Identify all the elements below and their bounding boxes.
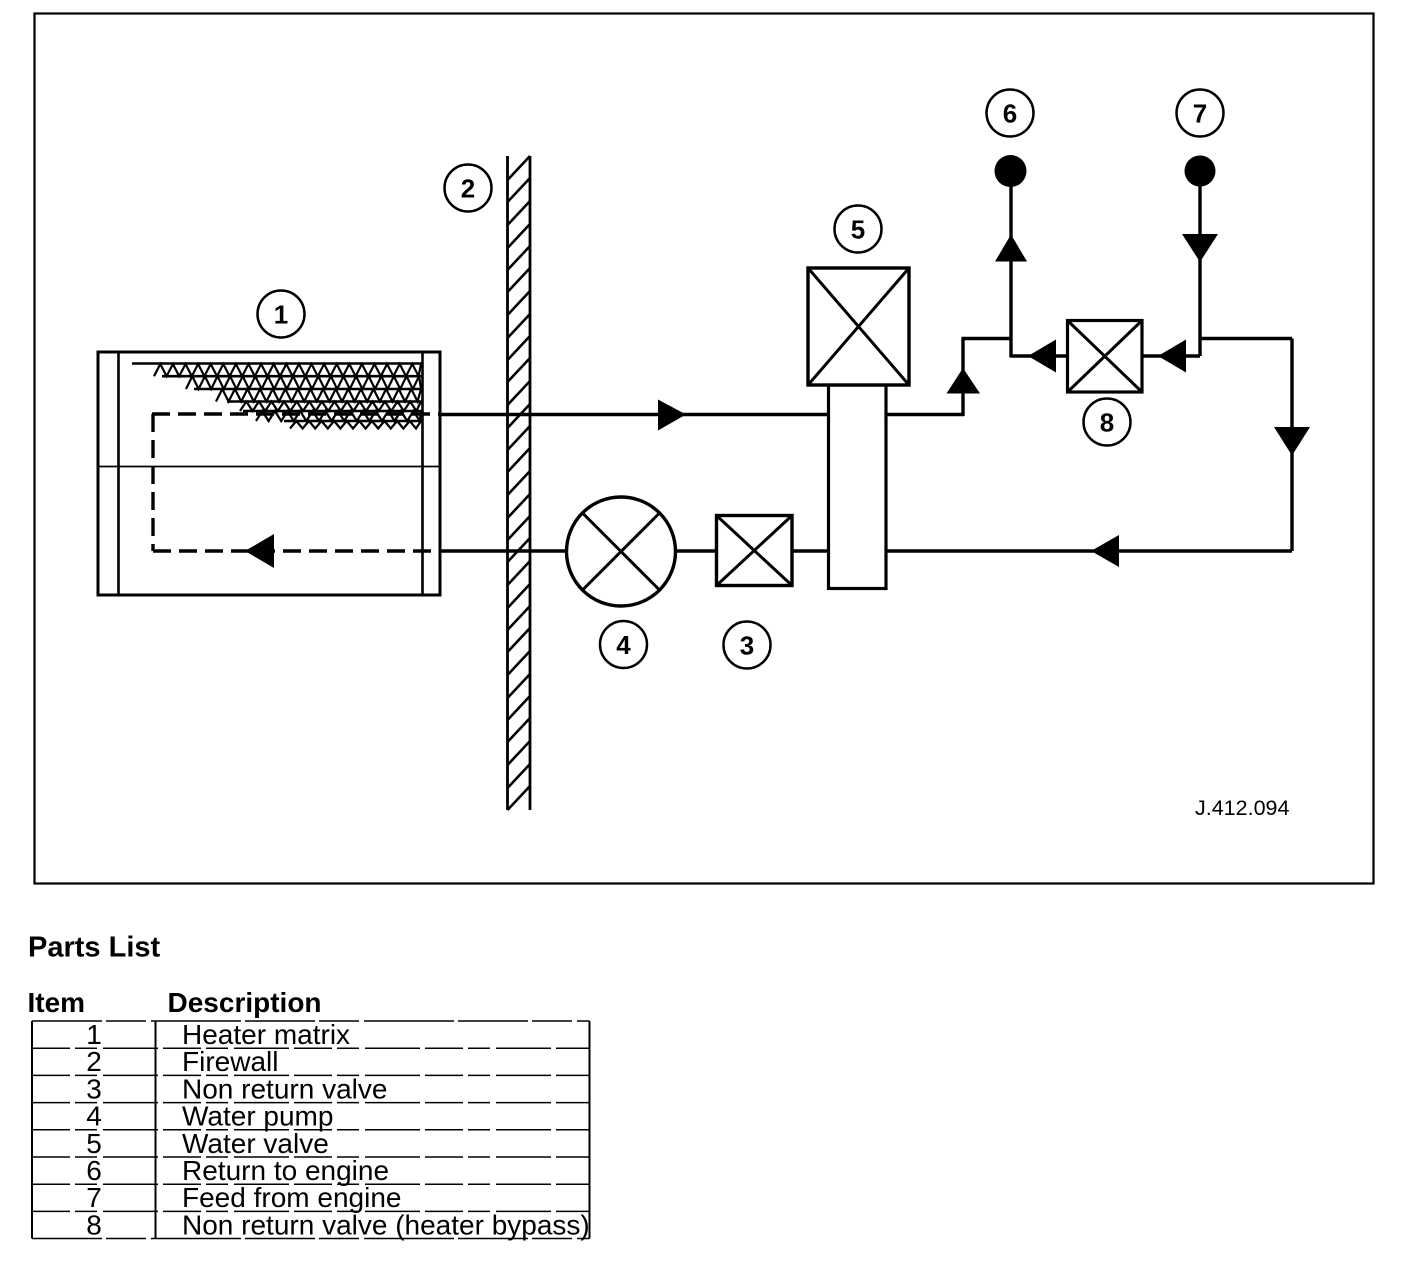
water valve 5 (box with X and riser body) <box>808 268 909 589</box>
label circle 1 <box>258 291 305 338</box>
svg-text:2: 2 <box>461 174 475 204</box>
svg-text:3: 3 <box>740 631 754 661</box>
wire: vertical line from feed-from-engine node 7, with down arrow <box>1182 171 1218 356</box>
non return valve 8 (heater bypass) <box>1068 321 1143 393</box>
wire: vertical line to return-to-engine node 6, with up arrow <box>995 171 1027 358</box>
parts table grid <box>32 1021 590 1239</box>
wire: top pipe from heater matrix to water valve riser <box>440 400 964 431</box>
wire: bypass output from valve 8 to node-6 line, arrow left <box>1011 340 1068 373</box>
label circle 2 <box>445 165 492 212</box>
svg-text:J.412.094: J.412.094 <box>1195 796 1289 820</box>
table row 1: Heater matrix <box>86 1019 350 1050</box>
svg-text:6: 6 <box>1003 99 1017 129</box>
water pump 4 <box>567 497 676 606</box>
table row 7: Feed from engine <box>86 1182 401 1213</box>
label circle 4 <box>600 621 647 668</box>
label circle 6 <box>987 90 1034 137</box>
label circle 8 <box>1084 399 1131 446</box>
wire: feed line 7 into valve 8, arrow left <box>1142 340 1200 373</box>
wire: right-hand drop with down arrow <box>1274 339 1310 552</box>
svg-text:Description: Description <box>168 987 322 1018</box>
label circle 5 <box>835 206 882 253</box>
svg-text:1: 1 <box>274 300 288 330</box>
table row 8: Non return valve (heater bypass) <box>86 1209 590 1240</box>
diagram frame <box>35 14 1374 884</box>
svg-text:8: 8 <box>86 1209 102 1240</box>
firewall 2 <box>508 156 531 810</box>
node 6: return to engine terminal dot <box>995 155 1027 187</box>
svg-text:4: 4 <box>616 630 631 660</box>
svg-text:Non return valve (heater bypas: Non return valve (heater bypass) <box>182 1209 590 1240</box>
node 7: feed from engine terminal dot <box>1185 156 1216 187</box>
svg-text:7: 7 <box>1193 99 1207 129</box>
svg-text:5: 5 <box>851 215 865 245</box>
non return valve 3 <box>717 516 793 586</box>
table row 2: Firewall <box>86 1046 278 1077</box>
table row 6: Return to engine <box>86 1155 389 1186</box>
wire: dashed flow loop inside heater matrix with arrow left <box>152 414 441 568</box>
svg-text:Parts List: Parts List <box>28 932 160 964</box>
svg-text:Item: Item <box>28 987 86 1018</box>
table row 3: Non return valve <box>86 1073 387 1104</box>
table row 4: Water pump <box>86 1101 333 1132</box>
label circle 7 <box>1177 90 1224 137</box>
label circle 3 <box>724 622 771 669</box>
wire: riser from top pipe up to junction, with up arrow <box>947 339 1012 417</box>
table row 5: Water valve <box>86 1128 329 1159</box>
heater matrix 1 <box>98 352 440 595</box>
wire: bottom pipe from right drop back to heater matrix, arrow left <box>440 535 1292 567</box>
wire: branch from node 7 to right-hand drop <box>1200 337 1292 340</box>
svg-text:8: 8 <box>1100 408 1114 438</box>
